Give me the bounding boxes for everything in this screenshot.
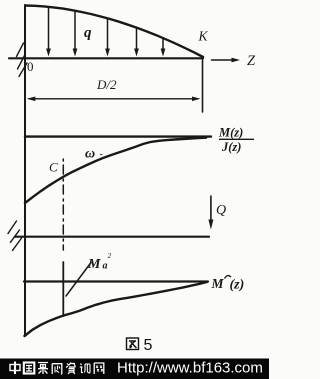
svg-text:M(z): M(z) <box>218 126 243 140</box>
svg-text:0: 0 <box>27 59 34 74</box>
svg-text:J(z): J(z) <box>221 140 241 154</box>
svg-text:Q: Q <box>216 203 226 218</box>
svg-text:Http://www.bf163.com: Http://www.bf163.com <box>117 360 263 377</box>
svg-text:ω: ω <box>85 147 95 162</box>
svg-text:C: C <box>49 160 58 175</box>
svg-text:a: a <box>103 261 108 272</box>
svg-text:D/2: D/2 <box>96 77 117 92</box>
svg-text:2: 2 <box>108 251 112 260</box>
svg-text:M: M <box>87 257 101 272</box>
svg-text:-: - <box>100 149 103 160</box>
svg-text:q: q <box>84 25 92 41</box>
svg-text:(z): (z) <box>230 278 245 293</box>
svg-text:M: M <box>211 276 225 291</box>
svg-text:5: 5 <box>144 337 153 354</box>
svg-text:K: K <box>198 29 209 44</box>
svg-text:Z: Z <box>247 53 256 69</box>
